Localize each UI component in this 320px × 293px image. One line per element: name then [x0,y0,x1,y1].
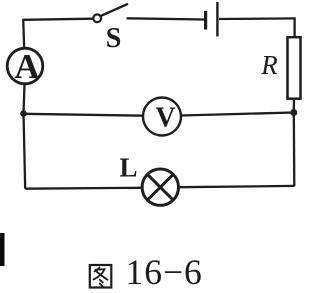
wire right vertical lower [293,113,296,187]
resistor R [288,37,301,98]
wire battery-to-right-corner [219,17,296,20]
wire right vertical upper [293,18,295,38]
wire resistor-to-junction [293,99,296,113]
wire switch-to-battery [127,18,205,19]
svg-text:16−6: 16−6 [126,252,203,292]
node right junction [290,109,297,116]
svg-text:A: A [14,47,40,86]
wire left vertical upper [23,19,24,49]
left edge scan bar [0,233,5,266]
wire bottom-left segment [25,187,142,190]
wire top-left segment [23,19,92,20]
svg-text:S: S [106,23,122,54]
voltmeter V [143,98,181,136]
switch S [93,4,128,22]
caption hanzi tu [90,265,112,288]
wire left vertical lower [24,114,26,189]
wire junction-to-voltmeter [24,114,144,116]
battery cell [206,2,218,37]
svg-text:R: R [260,50,278,80]
caption figure 16-6 [90,252,203,292]
wire left vertical middle [24,84,25,114]
ammeter A [7,47,43,86]
svg-text:V: V [155,102,175,133]
lamp L [142,169,178,205]
wire bottom-right segment [179,186,295,187]
svg-text:L: L [120,153,138,183]
node left junction [20,110,27,117]
wire voltmeter-to-right-junction [181,113,294,116]
